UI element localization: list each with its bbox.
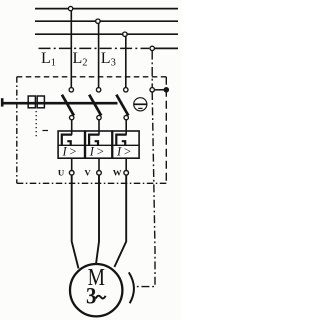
svg-text:L2: L2 [73,50,88,69]
svg-text:I>: I> [89,144,107,158]
svg-text:L3: L3 [101,50,116,69]
svg-text:V: V [84,168,91,178]
svg-text:3: 3 [86,283,96,309]
svg-text:W: W [113,168,122,178]
svg-text:U: U [58,168,65,178]
svg-text:I>: I> [61,144,79,158]
svg-text:L1: L1 [41,50,56,69]
svg-text:I>: I> [116,144,134,158]
